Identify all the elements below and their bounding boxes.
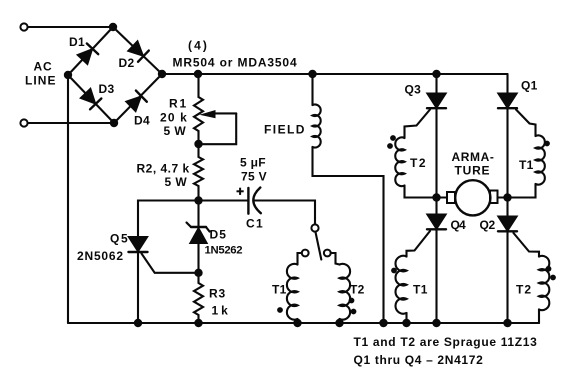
svg-text:R1: R1 — [169, 97, 188, 111]
wire: bottom AC line to bridge bottom vertex — [28, 122, 114, 124]
diode D2 — [128, 41, 149, 62]
transformer T1 secondary (Q4 gate) — [395, 256, 406, 314]
node: Q5 at bottom rail — [134, 319, 142, 327]
wire: Q1 cathode to armature node — [506, 108, 508, 197]
thyristor Q5 — [129, 237, 147, 251]
svg-text:R3: R3 — [209, 287, 226, 301]
wire: bridge edge top-left — [68, 27, 113, 75]
svg-text:LINE: LINE — [25, 74, 57, 88]
node: R1 bottom junction — [194, 140, 202, 148]
AC bottom terminal — [20, 119, 27, 126]
wire: D5 anode to gate node — [197, 243, 199, 273]
wire: right contact to T2 primary — [331, 253, 340, 265]
wire: T1 secondary to rail — [405, 313, 407, 323]
wire: T1 secondary return — [508, 184, 536, 198]
svg-text:T2: T2 — [410, 156, 427, 170]
node on top rail at R1 — [194, 70, 202, 78]
transformer T2 secondary (Q3 gate) — [395, 137, 404, 186]
svg-text:T2: T2 — [516, 283, 532, 297]
phasing dots T2 primary — [349, 298, 355, 304]
wire: wiper loop — [199, 113, 237, 144]
node: armature left junction — [432, 193, 440, 201]
node: Q4 at bottom rail — [432, 319, 440, 327]
svg-text:(4): (4) — [188, 39, 209, 53]
thyristor Q1 — [499, 94, 517, 108]
wire: bridge edge top-right — [113, 27, 162, 74]
svg-text:Q1: Q1 — [521, 79, 538, 93]
vibrator left contact — [302, 250, 309, 257]
svg-text:FIELD: FIELD — [264, 123, 306, 137]
node: T1 primary at rail — [293, 319, 301, 327]
wire: Q1 gate — [516, 110, 536, 137]
inductor FIELD — [313, 104, 321, 147]
vibrator blade — [315, 232, 321, 260]
node: R3 at bottom rail — [194, 319, 202, 327]
wire: T1 primary to rail — [296, 319, 298, 323]
thyristor Q3 — [428, 94, 446, 108]
wire: R2 bottom lead — [197, 186, 199, 201]
svg-text:75 V: 75 V — [241, 170, 267, 184]
svg-text:Q4: Q4 — [451, 218, 467, 232]
svg-text:Q3: Q3 — [405, 83, 422, 97]
wire: top AC line to bridge top vertex — [28, 26, 113, 28]
svg-text:2N5062: 2N5062 — [77, 249, 124, 263]
phasing dots T2 secondary — [390, 135, 396, 141]
node: T2 primary at rail — [335, 319, 343, 327]
label + polarity — [237, 188, 244, 195]
phasing dot T1 secondary — [544, 141, 550, 147]
wire: Q5 gate — [142, 254, 199, 273]
wire: armature left stub — [437, 196, 448, 198]
node: T1 secondary at rail — [402, 319, 410, 327]
svg-text:5 W: 5 W — [165, 175, 188, 189]
wire: bottom rail — [68, 322, 539, 324]
wire: junction down to D5 — [197, 201, 199, 228]
svg-text:T1 and T2 are Sprague 11Z13: T1 and T2 are Sprague 11Z13 — [354, 335, 538, 349]
node: armature right junction — [503, 193, 511, 201]
node on top rail at Q3 — [432, 70, 440, 78]
wire: R3 to bottom rail — [197, 315, 199, 323]
resistor R3 — [194, 283, 203, 315]
wire: R1 bottom lead — [197, 131, 199, 144]
wire: T2 secondary return — [405, 186, 437, 198]
svg-text:ARMA-: ARMA- — [452, 150, 495, 164]
phasing dot T1 primary — [277, 307, 283, 313]
svg-text:AC: AC — [34, 60, 53, 74]
transformer T1 primary winding — [287, 264, 298, 320]
wire: C1 to vibrator pivot — [254, 201, 315, 225]
wire: Q2 cathode to bottom rail — [506, 231, 508, 323]
phasing dots T2 secondary lower — [546, 266, 552, 272]
zener diode D5 — [191, 226, 206, 228]
armature left brush — [447, 192, 455, 203]
wire: bridge edge bottom-left — [68, 75, 114, 123]
wire: T2 secondary to rail end — [538, 310, 540, 324]
thyristor Q2 — [499, 217, 517, 231]
armature right brush — [490, 191, 498, 204]
wire: Q4 gate — [407, 231, 431, 257]
svg-text:1N5262: 1N5262 — [205, 245, 243, 257]
svg-text:Q2: Q2 — [480, 218, 496, 232]
wire: Q5 cathode to bottom rail — [137, 252, 139, 323]
node: bridge top vertex — [109, 23, 117, 31]
wire: armature right stub — [498, 196, 508, 198]
thyristor Q4 — [428, 215, 446, 229]
node: Q2 at bottom rail — [503, 319, 511, 327]
node: bridge left vertex — [64, 71, 72, 79]
wire: R1 to R2 — [197, 144, 199, 157]
diode D4 — [126, 91, 147, 112]
wire: junction to C1 left plate — [199, 199, 248, 201]
svg-text:D1: D1 — [69, 35, 85, 49]
node: R2 / C1 / Q5 junction — [194, 196, 202, 204]
svg-text:Q1 thru Q4 – 2N4172: Q1 thru Q4 – 2N4172 — [354, 353, 484, 367]
node: FIELD branch at bottom rail — [379, 319, 387, 327]
vibrator pivot contact — [311, 224, 318, 231]
wire: T2 primary to rail — [338, 319, 340, 323]
wire: armature node to Q4 anode — [435, 198, 437, 215]
wire: rail to Q3 anode — [435, 74, 437, 94]
diode D3 — [80, 88, 101, 109]
phasing dot T1 secondary lower — [391, 268, 397, 274]
svg-text:MR504 or MDA3504: MR504 or MDA3504 — [173, 56, 298, 70]
svg-text:D3: D3 — [99, 82, 115, 96]
wire: Q3 gate — [405, 110, 431, 139]
AC top terminal — [20, 23, 27, 30]
svg-text:D4: D4 — [134, 114, 150, 128]
svg-text:R2, 4.7 k: R2, 4.7 k — [137, 162, 190, 176]
wire: top positive rail — [162, 73, 508, 75]
node: bridge right vertex — [158, 70, 166, 78]
transformer T1 secondary (Q1 gate) — [536, 135, 545, 184]
wire: Q4 cathode to bottom rail — [435, 229, 437, 323]
svg-text:1 k: 1 k — [212, 304, 229, 318]
motor armature — [455, 180, 490, 215]
node on top rail at FIELD — [308, 70, 316, 78]
diode D1 — [77, 43, 98, 64]
wire: left vertical negative bus — [67, 75, 69, 323]
svg-text:20 k: 20 k — [160, 111, 188, 125]
node: D5 / R3 / Q5 gate junction — [194, 269, 202, 277]
capacitor C1 — [247, 188, 249, 214]
svg-text:T1: T1 — [413, 283, 428, 297]
svg-text:5 W: 5 W — [164, 124, 187, 138]
wire: FIELD top lead — [311, 74, 313, 105]
R1 wiper arrow — [215, 112, 236, 114]
wire: FIELD bottom lead to rail — [313, 147, 384, 323]
svg-text:T1: T1 — [272, 283, 287, 297]
wire: junction to R3 — [197, 273, 199, 283]
wire: Q2 gate — [514, 233, 540, 257]
svg-text:Q5: Q5 — [110, 232, 129, 246]
svg-text:C1: C1 — [246, 217, 264, 231]
svg-text:TURE: TURE — [455, 164, 491, 178]
svg-text:D2: D2 — [119, 56, 135, 70]
svg-text:5 μF: 5 μF — [240, 156, 266, 170]
resistor R2 — [194, 157, 203, 186]
svg-text:D5: D5 — [210, 228, 227, 242]
vibrator right contact — [324, 250, 331, 257]
wire: top rail corner to Q1 — [506, 74, 508, 94]
svg-text:T1: T1 — [519, 158, 534, 172]
wire: left contact to T1 primary — [298, 253, 302, 265]
transformer T2 secondary (Q2 gate) — [539, 256, 549, 310]
wire: Q3 cathode to armature node — [435, 108, 437, 197]
node: bridge bottom vertex — [110, 119, 118, 127]
wire: R1 branch drop — [197, 74, 199, 97]
wire: bridge edge bottom-right — [114, 74, 162, 123]
wire: junction to Q5 anode — [138, 201, 199, 238]
wire: armature node to Q2 anode — [506, 198, 508, 217]
resistor R1 (potentiometer) — [194, 97, 203, 131]
transformer T2 primary winding — [340, 264, 351, 320]
svg-text:T2: T2 — [350, 283, 365, 297]
